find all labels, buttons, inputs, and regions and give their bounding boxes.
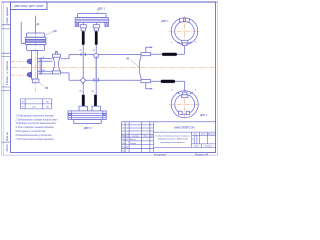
left margin column dividers xyxy=(2,25,11,142)
top outlet connector xyxy=(141,53,151,56)
bottom outlet connector xyxy=(141,80,151,83)
ДВП2 label xyxy=(85,124,88,126)
svg-text:ДВ: ДВ xyxy=(52,30,57,33)
outlet stub upper xyxy=(38,58,53,61)
valve knob centerlines xyxy=(11,61,28,75)
svg-text:Масса: Масса xyxy=(201,134,206,136)
inlet line to regulator xyxy=(21,22,24,44)
svg-text:Д-1: Д-1 xyxy=(90,90,94,92)
bottom clamp lugs xyxy=(179,111,182,115)
svg-text:ПВ: ПВ xyxy=(126,57,130,60)
hose link fitting on pipe top at x83 xyxy=(81,53,86,57)
ДВП2 left collar xyxy=(79,106,87,111)
svg-text:ПБ: ПБ xyxy=(45,87,49,90)
svg-text:Перв. примен.: Перв. примен. xyxy=(6,6,9,23)
ДВП2 right hose bar xyxy=(94,95,97,107)
svg-text:Под.: Под. xyxy=(5,143,9,151)
svg-text:Пров.: Пров. xyxy=(122,143,127,145)
bottom tube to clamp xyxy=(151,81,185,92)
leader to ДВ label xyxy=(45,32,53,36)
svg-text:Копировал: Копировал xyxy=(154,153,167,156)
svg-text:Подп. и дата: Подп. и дата xyxy=(6,60,9,85)
top clamp outer ring xyxy=(171,18,198,45)
bellows regulator ДВ xyxy=(27,33,45,37)
top clamp inner ring xyxy=(175,21,195,41)
svg-text:Подп.: Подп. xyxy=(143,135,148,138)
svg-text:Иванов: Иванов xyxy=(130,139,136,141)
svg-text:ДВГ 1: ДВГ 1 xyxy=(160,19,169,23)
svg-text:Дата: Дата xyxy=(148,136,154,138)
title block xyxy=(121,122,215,153)
svg-text:Д-1: Д-1 xyxy=(78,90,82,92)
knob 1 xyxy=(27,59,31,64)
svg-text:Петров: Петров xyxy=(130,143,136,145)
bottom tube hose bar xyxy=(161,80,175,83)
stub flange plate xyxy=(40,58,42,75)
circle fitting on pipe top at x96 xyxy=(94,53,99,58)
svg-text:Д1: Д1 xyxy=(41,57,44,59)
pipe narrow section xyxy=(61,59,69,73)
ДВП2 base plate xyxy=(74,120,101,124)
bottom clamp view crosshair xyxy=(169,91,201,119)
svg-text:оборудования ЗИЛ-130: оборудования ЗИЛ-130 xyxy=(158,138,189,141)
valve block foot xyxy=(32,79,39,83)
regulator pin line xyxy=(34,16,36,33)
ДВП1 right tab xyxy=(105,23,109,27)
drawing frame xyxy=(10,2,215,152)
svg-text:Б: Б xyxy=(195,89,196,91)
svg-text:Лист: Лист xyxy=(124,136,130,138)
pins from pipe down to ДВП2 xyxy=(83,56,96,95)
svg-text:ДВП 1: ДВП 1 xyxy=(97,7,106,11)
bottom clamp fitting xyxy=(183,92,187,95)
diamond valve on pipe bottom at x83 xyxy=(80,77,85,83)
svg-text:Б: Б xyxy=(195,42,196,44)
top border line xyxy=(2,1,218,3)
manifold ДВП1 cap xyxy=(78,14,107,18)
compensator spool xyxy=(52,54,60,57)
svg-text:Масштаб: Масштаб xyxy=(208,134,216,136)
svg-text:Формат А4: Формат А4 xyxy=(195,153,209,156)
svg-text:Б: Б xyxy=(171,42,172,44)
pins from bars to pipe xyxy=(83,45,96,84)
svg-text:Ф: Ф xyxy=(22,106,24,109)
sheet outer edge lines xyxy=(2,2,218,155)
svg-text:Лит.: Лит. xyxy=(193,134,198,136)
svg-text:Разраб.: Разраб. xyxy=(122,139,129,141)
top clamp fitting xyxy=(181,40,188,43)
svg-text:Утв.: Утв. xyxy=(122,150,126,152)
hose link fitting on pipe bottom at x96 xyxy=(94,78,99,82)
valve block body xyxy=(32,51,38,80)
svg-text:www.сhertim.com: www.сhertim.com xyxy=(175,125,195,129)
outlet stub lower xyxy=(38,71,53,74)
svg-text:G: G xyxy=(22,102,24,104)
manifold ДВП1 plate stack xyxy=(75,18,108,23)
svg-text:Д-1: Д-1 xyxy=(78,50,82,52)
main centerline xyxy=(11,66,215,68)
svg-text:Инв.№: Инв.№ xyxy=(5,132,9,141)
top clamp view crosshair xyxy=(169,16,201,47)
svg-text:Б: Б xyxy=(172,89,173,91)
svg-text:ДВГ 1: ДВГ 1 xyxy=(199,113,208,117)
svg-text:Схема пневматическая подвода: Схема пневматическая подвода xyxy=(156,134,191,137)
ДВП2 plate stack xyxy=(68,111,106,120)
ДВП2 right collar xyxy=(92,106,100,111)
ДВП1 left stub xyxy=(82,23,84,25)
svg-text:7 Подготовка сжатого воздуха п: 7 Подготовка сжатого воздуха переходник xyxy=(16,137,54,141)
svg-text:Д2: Д2 xyxy=(41,70,44,72)
bottom clamp inner ring xyxy=(175,94,195,114)
svg-text:Д-1: Д-1 xyxy=(91,50,95,52)
top vent stub arrow xyxy=(146,47,151,52)
svg-text:ДВП 2: ДВП 2 xyxy=(83,126,92,130)
designation box top-left xyxy=(10,2,47,10)
ДВП1 left hose bar xyxy=(82,31,85,45)
svg-text:АВСТАЦУ ДРУ МАИ: АВСТАЦУ ДРУ МАИ xyxy=(13,4,43,8)
ДВП2 left hose bar xyxy=(82,95,85,107)
svg-text:№ докум.: № докум. xyxy=(132,135,140,138)
top tube to clamp xyxy=(151,46,185,55)
pipe shoulders xyxy=(68,54,70,80)
pipe end cap arc xyxy=(139,55,141,79)
ДВП1 right hose bar xyxy=(95,31,98,45)
main pipe top edge xyxy=(69,53,141,55)
parameter table xyxy=(20,99,51,109)
main pipe bottom edge xyxy=(69,79,141,81)
valve block vertical centerline xyxy=(34,32,36,92)
bottom vent stub arrow xyxy=(146,83,151,89)
svg-text:принципиальная: принципиальная xyxy=(161,142,186,144)
bottom clamp outer ring xyxy=(171,91,198,118)
leader ПБ xyxy=(39,82,44,87)
top clamp lugs xyxy=(180,18,184,22)
svg-text:Листов 1: Листов 1 xyxy=(204,146,213,148)
ДВП1 right stub xyxy=(95,23,97,25)
top tube hose bar xyxy=(162,53,177,56)
knob 2 xyxy=(27,72,31,78)
ДВП1 left tab xyxy=(75,23,79,27)
svg-text:Н.контр.: Н.контр. xyxy=(122,147,130,149)
svg-text:Лист: Лист xyxy=(193,146,199,148)
